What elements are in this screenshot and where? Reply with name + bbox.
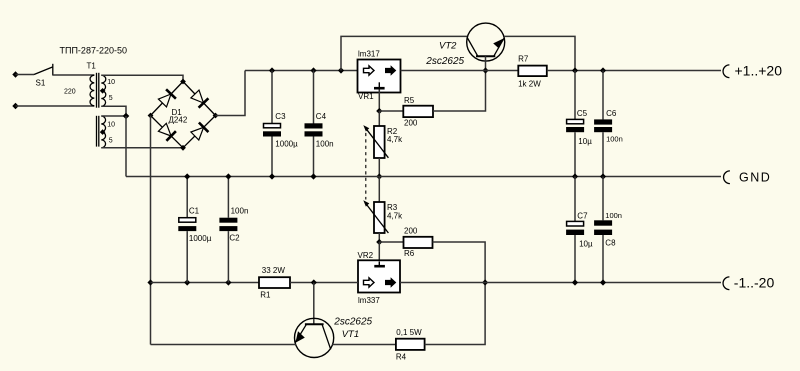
T1 secondary winding 2 <box>101 116 115 148</box>
wire lm317 output rail to R7 <box>401 70 519 72</box>
svg-text:10: 10 <box>107 121 115 128</box>
diode D1a (left to top) <box>158 89 176 107</box>
wire VT1 base riser <box>313 283 315 325</box>
capacitor C1 1000µ <box>178 177 211 283</box>
svg-text:Д242: Д242 <box>169 116 188 125</box>
wire T1 sec1 top to bridge top <box>101 75 183 81</box>
wire VR2 output to negative output rail <box>400 282 721 284</box>
svg-text:1000µ: 1000µ <box>189 234 212 243</box>
regulator VR1 lm317 <box>358 50 401 101</box>
svg-text:R7: R7 <box>518 54 529 63</box>
svg-text:T1: T1 <box>87 62 97 71</box>
wire GND rail <box>126 176 721 178</box>
R3 wiper arrow head <box>363 200 369 206</box>
svg-text:C8: C8 <box>605 239 616 248</box>
svg-text:-1..-20: -1..-20 <box>734 275 775 291</box>
node C3 bottom junction <box>269 173 275 179</box>
VR1 adjust pin symbol <box>374 82 385 88</box>
bridge frame wires <box>151 82 216 148</box>
R2 wiper arrow head <box>363 125 369 131</box>
diode D1c (left to bottom) <box>158 123 176 141</box>
wire bridge right corner to positive raw rail <box>216 71 246 116</box>
wire junction to R6 <box>379 241 403 243</box>
diode D1d (bottom to right) <box>191 123 209 141</box>
terminal GND <box>724 170 772 184</box>
capacitor C8 100n <box>594 177 622 283</box>
node C4 top junction <box>310 67 316 73</box>
wire bridge left corner to negative raw rail <box>150 116 152 345</box>
switch S1 <box>12 64 53 109</box>
transformer T1 <box>64 62 115 148</box>
svg-text:10µ: 10µ <box>578 137 592 146</box>
node C2 top junction <box>225 173 231 179</box>
wire junction to R5 <box>379 110 403 112</box>
svg-text:lm317: lm317 <box>358 50 380 59</box>
bridge rectifier D1 Д242 <box>148 79 219 151</box>
svg-text:200: 200 <box>404 118 418 127</box>
svg-text:VR1: VR1 <box>358 92 374 101</box>
node bridge top corner <box>180 79 186 85</box>
svg-text:GND: GND <box>739 170 771 184</box>
svg-text:C1: C1 <box>189 207 200 216</box>
VT1 collector lead <box>322 324 331 349</box>
node VT2 collector tap junction <box>338 67 344 73</box>
wire T1 sec1 bottom to GND drop <box>101 106 126 116</box>
diode D1b (top to right) <box>191 90 209 108</box>
capacitor C5 10µ <box>566 71 592 177</box>
svg-text:100n: 100n <box>605 211 622 220</box>
mechanical coupling dashed link R2-R3 <box>365 127 367 200</box>
svg-text:200: 200 <box>404 227 418 236</box>
svg-text:S1: S1 <box>36 79 46 88</box>
VR2 input arrow (hollow) <box>364 278 375 287</box>
svg-text:1000µ: 1000µ <box>275 139 298 148</box>
svg-text:VT2: VT2 <box>439 41 457 52</box>
wire T1 sec2 top to GND drop <box>101 115 126 117</box>
wire positive raw rail (top rail to lm317 input) <box>245 70 357 72</box>
resistor R5 200 <box>403 96 433 127</box>
resistor R7 1k 2W <box>518 54 547 88</box>
regulator VR2 lm337 <box>358 251 401 305</box>
svg-text:4,7k: 4,7k <box>387 211 403 220</box>
T1 core <box>97 73 99 147</box>
wire GND drop down to GND rail <box>125 116 127 177</box>
VT2 emitter lead with arrow <box>493 38 504 56</box>
T1 secondary winding 1 <box>101 75 115 106</box>
node C7 top junction <box>572 173 578 179</box>
svg-text:C2: C2 <box>229 234 240 243</box>
wire VT2 emitter to output rail drop <box>504 36 575 70</box>
node C1 top junction <box>184 173 190 179</box>
wire VT2 collector riser <box>341 36 467 70</box>
svg-text:lm337: lm337 <box>358 296 380 305</box>
wire S1 to T1 primary bottom <box>16 105 95 107</box>
node negative raw rail left junction <box>147 279 153 285</box>
VT1 emitter lead with arrow <box>295 324 306 343</box>
svg-text:R6: R6 <box>404 249 415 258</box>
node R3 / R6 / VR2 adjust junction <box>376 239 382 245</box>
node bridge left corner <box>148 113 154 119</box>
svg-text:VR2: VR2 <box>358 251 374 260</box>
capacitor C4 100n <box>305 71 334 177</box>
node C2 bottom junction <box>225 279 231 285</box>
svg-text:5: 5 <box>109 137 113 144</box>
potentiometer R3 4,7k <box>363 177 403 243</box>
node GND tap junction <box>123 113 130 120</box>
VT1 base bar <box>305 323 324 325</box>
transistor VT2 2sc2625 <box>425 23 504 67</box>
svg-text:220: 220 <box>64 88 76 95</box>
svg-text:33 2W: 33 2W <box>262 266 286 275</box>
svg-text:0,1 5W: 0,1 5W <box>396 328 422 337</box>
wire R5 to VT2 base riser <box>433 71 486 112</box>
wire S1 to T1 primary top <box>53 74 95 76</box>
VR1 input arrow (hollow) <box>364 66 375 75</box>
svg-text:R1: R1 <box>260 290 271 299</box>
wire R6 to rail drop <box>433 242 486 283</box>
capacitor C3 1000µ <box>263 71 298 177</box>
VR2 output arrow (filled) <box>385 277 396 288</box>
svg-text:100n: 100n <box>316 139 334 148</box>
svg-text:C6: C6 <box>606 109 617 118</box>
wire lm317 adjust to divider junction <box>378 90 380 112</box>
svg-text:4,7k: 4,7k <box>387 135 403 144</box>
svg-text:VT1: VT1 <box>342 329 359 340</box>
node R6/R4 rail junction <box>482 279 488 285</box>
wire VT1 collector to R4 <box>332 344 396 346</box>
resistor R1 33 2W <box>259 266 290 299</box>
node VR1 adjust / R5 / R2 junction <box>376 108 382 114</box>
svg-text:ТПП-287-220-50: ТПП-287-220-50 <box>60 46 127 56</box>
svg-text:2sc2625: 2sc2625 <box>425 56 464 67</box>
node VT1 base junction <box>311 279 317 285</box>
svg-text:100n: 100n <box>606 135 623 144</box>
node C7 bottom junction <box>572 279 578 285</box>
VR1 output arrow (filled) <box>385 65 396 76</box>
capacitor C7 10µ <box>566 177 593 283</box>
svg-text:1k 2W: 1k 2W <box>518 79 541 88</box>
capacitor C2 100n <box>219 177 248 283</box>
wire VR2 adjust <box>378 242 380 261</box>
VT2 base bar <box>476 55 495 57</box>
node C4 bottom junction <box>310 173 316 179</box>
svg-text:R4: R4 <box>396 352 407 361</box>
node C5 top junction <box>572 67 578 73</box>
svg-text:C3: C3 <box>275 112 286 121</box>
wire R4 to negative rail junction <box>425 283 486 345</box>
terminal -1..-20 <box>723 275 774 291</box>
wire VT2 base stub <box>485 56 487 70</box>
svg-text:2sc2625: 2sc2625 <box>333 316 372 327</box>
T1 secondary 2 center tap <box>100 129 106 135</box>
wire R7 to positive output terminal <box>547 70 721 72</box>
node VT2 base rail junction <box>482 67 488 73</box>
node bridge right corner <box>213 113 219 119</box>
svg-text:5: 5 <box>109 95 113 102</box>
VR2 adjust pin symbol <box>374 262 385 267</box>
resistor R4 0,1 5W <box>396 328 425 361</box>
VT2 collector lead <box>467 38 478 57</box>
transistor VT1 2sc2625 <box>295 316 373 357</box>
wire R1 to VR2 input <box>290 282 358 284</box>
node C3 top junction <box>269 67 275 73</box>
svg-text:C7: C7 <box>577 211 588 220</box>
svg-text:+1..+20: +1..+20 <box>735 63 783 79</box>
svg-text:R5: R5 <box>404 96 415 105</box>
potentiometer R2 4,7k <box>363 111 403 177</box>
T1 primary winding 220 <box>64 75 94 106</box>
terminal +1..+20 <box>723 63 782 79</box>
wire negative raw rail left segment <box>151 282 260 284</box>
resistor R6 200 <box>404 227 433 259</box>
wire VT1 emitter to left riser <box>151 344 296 346</box>
node C8 bottom junction <box>600 279 606 285</box>
wire T1 sec2 bottom to bridge bottom <box>101 147 183 149</box>
svg-text:10: 10 <box>107 79 115 86</box>
svg-text:C4: C4 <box>316 112 327 121</box>
node C8 top junction <box>600 173 606 179</box>
svg-text:10µ: 10µ <box>579 239 593 248</box>
node C1 bottom junction <box>184 279 190 285</box>
capacitor C6 100n <box>594 71 623 177</box>
node bridge bottom corner <box>180 145 186 151</box>
T1 secondary 1 center tap <box>100 88 106 94</box>
svg-text:C5: C5 <box>577 109 588 118</box>
node R2/R3 GND junction <box>376 173 382 179</box>
svg-text:100n: 100n <box>231 207 249 216</box>
node C6 top junction <box>600 67 606 73</box>
